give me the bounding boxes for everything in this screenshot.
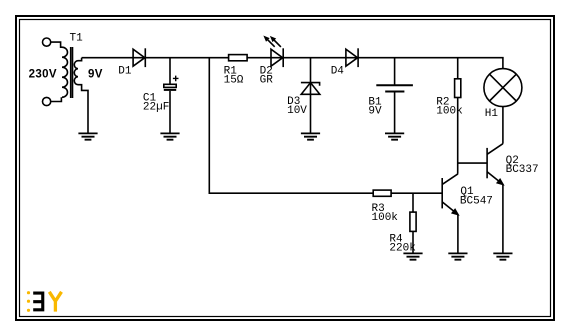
- wire feedback from rail down to R3: [209, 58, 373, 194]
- transformer T1 primary winding: [62, 47, 68, 97]
- svg-text:GR: GR: [260, 75, 274, 87]
- wire secondary top: [78, 58, 82, 61]
- svg-text:D4: D4: [331, 66, 345, 78]
- wire R4 bottom to ground: [412, 231, 414, 253]
- svg-text:T1: T1: [70, 33, 84, 45]
- svg-text:230V: 230V: [29, 68, 57, 80]
- wire primary top: [51, 42, 62, 47]
- svg-text:100k: 100k: [372, 212, 399, 224]
- capacitor C1: [164, 84, 176, 87]
- resistor R1: [229, 55, 248, 61]
- C1 plus sign: [173, 76, 179, 82]
- resistor R4: [410, 212, 416, 231]
- transformer T1 primary terminal bottom circle: [43, 97, 51, 105]
- svg-text:BC547: BC547: [460, 195, 493, 207]
- LED D2: [271, 49, 283, 66]
- LED D2 arrows: [268, 40, 275, 47]
- svg-text:D1: D1: [118, 66, 132, 78]
- transformer T1 core: [71, 47, 73, 98]
- svg-text:H1: H1: [485, 108, 499, 120]
- wire B1 top lead: [394, 58, 396, 86]
- wire R2 bottom to Q1 collector: [457, 98, 459, 174]
- ground (C1): [160, 133, 179, 139]
- ground (R4): [403, 253, 422, 259]
- svg-text:9V: 9V: [368, 105, 382, 117]
- battery B1: [376, 84, 413, 86]
- wire Q1 collector to Q2 base: [458, 162, 487, 164]
- diode D1: [133, 49, 145, 66]
- svg-text:22µF: 22µF: [143, 102, 169, 114]
- wire B1 bottom lead to ground: [394, 92, 396, 134]
- lamp H1: [484, 69, 522, 107]
- resistor R2: [455, 79, 461, 98]
- svg-text:10V: 10V: [287, 105, 307, 117]
- ground (B1): [385, 133, 404, 139]
- wire main top rail: [82, 58, 503, 69]
- wire R2 top lead: [457, 58, 459, 79]
- diode D4: [346, 49, 358, 66]
- logo reversed E: [33, 292, 44, 312]
- transformer T1 secondary winding: [74, 61, 78, 85]
- wire Q2 emitter to ground: [502, 184, 504, 253]
- transistor Q1: [441, 178, 443, 208]
- logo dots: [27, 291, 30, 312]
- ground (D3): [301, 133, 320, 139]
- wire R4 top lead: [412, 193, 414, 212]
- wire secondary bottom to ground: [78, 85, 88, 134]
- wire Q1 emitter to ground: [457, 215, 459, 254]
- ground (Q1): [448, 253, 467, 259]
- zener diode D3: [301, 83, 320, 86]
- logo Y: [49, 292, 61, 312]
- ground (transformer secondary): [78, 133, 97, 139]
- ground (Q2): [493, 253, 512, 259]
- svg-text:100k: 100k: [436, 105, 463, 117]
- resistor R3: [373, 190, 391, 196]
- svg-text:15Ω: 15Ω: [224, 75, 244, 87]
- wire C1 top lead: [169, 58, 171, 85]
- transistor Q2: [486, 148, 488, 178]
- wire D3 top lead: [310, 58, 312, 134]
- wire R3 to Q1 base: [391, 192, 442, 194]
- transformer T1 primary terminal top circle: [43, 38, 51, 46]
- wire C1 bottom lead to ground: [169, 91, 171, 133]
- svg-text:BC337: BC337: [506, 164, 539, 176]
- wire H1 bottom to Q2 collector: [502, 107, 504, 144]
- wire primary bottom: [51, 97, 62, 101]
- svg-text:9V: 9V: [88, 68, 103, 80]
- svg-text:220k: 220k: [389, 242, 416, 254]
